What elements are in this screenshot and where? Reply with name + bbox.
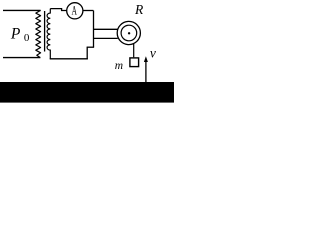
transformer primary coil L1	[36, 10, 41, 57]
velocity arrow v shaft	[145, 61, 147, 82]
string from pulley to mass	[133, 44, 135, 58]
svg-text:P: P	[10, 25, 21, 42]
svg-text:0: 0	[24, 32, 30, 44]
wire right vertical lower	[86, 47, 88, 60]
wire lower stub to motor	[94, 37, 118, 39]
wire secondary top jog to ammeter	[50, 9, 66, 11]
wire jog left	[87, 46, 94, 48]
svg-text:v: v	[150, 46, 156, 61]
motor pulley outer circle	[117, 21, 140, 44]
ground bar	[0, 82, 174, 103]
svg-text:m: m	[115, 60, 123, 72]
velocity arrow v head	[144, 56, 148, 62]
mass m box	[130, 58, 139, 67]
motor pulley inner circle	[121, 25, 137, 41]
wire ammeter to right vertical	[83, 10, 94, 12]
wire right vertical upper	[93, 11, 95, 48]
svg-text:R: R	[134, 2, 144, 17]
transformer secondary coil L2	[47, 9, 50, 59]
svg-text:A: A	[72, 4, 78, 18]
wire bottom lead from source (primary side)	[3, 57, 40, 59]
motor axle dot	[128, 32, 130, 34]
transformer core	[44, 11, 46, 52]
wire upper stub to motor	[94, 28, 118, 30]
wire top lead from source	[3, 9, 41, 11]
ammeter A1	[67, 3, 83, 19]
wire bottom of secondary loop	[50, 58, 88, 60]
